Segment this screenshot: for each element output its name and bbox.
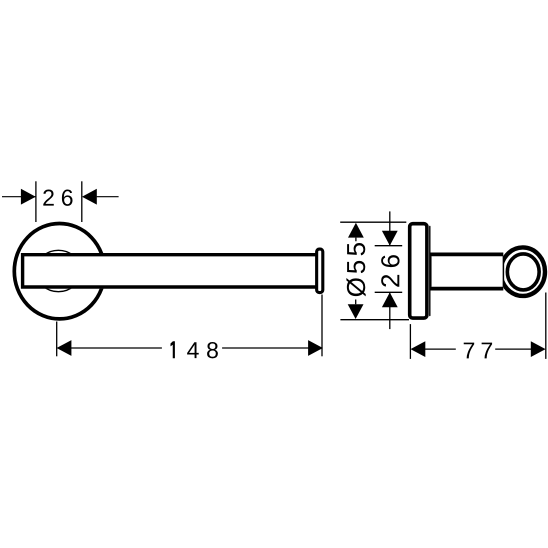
dimension 26 (side): dimension line top segment [389,211,391,245]
side view: outer ring of holder end [501,247,545,296]
dimension 77: value text [464,343,492,359]
dimension Ø55: value text (rotated) [346,243,365,296]
dimension 26 (side): top tick line [375,245,403,247]
dimension 77: right arrowhead [531,341,546,357]
dimension 77 (side, bottom): left extension line [409,324,411,359]
dimension 26 (side): dimension line bottom segment [389,292,391,329]
front view: mounting boss circle (Ø26) [36,250,81,291]
dimension 148 (front, bottom): left extension line [56,322,58,357]
dimension 26 (front): leader line right [97,196,119,198]
dimension 26 (front): value text [43,190,72,206]
dimension 148: right arrowhead [308,340,323,356]
dimension Ø55: bottom tick line [340,319,409,321]
dimension Ø55: up arrowhead [348,223,364,238]
dimension 77: dimension line segments [418,348,538,350]
dimension Ø55 (side): top tick line [340,221,406,223]
front view: roll holder bar [21,253,317,289]
dimension 148: value text [171,341,218,358]
dimension 26 (side): down arrowhead [382,231,398,246]
dimension 148: right extension line [321,295,323,357]
side view: inner ring of holder end [507,254,539,290]
dimension 26 (front): right arrowhead [82,189,97,205]
dimension 26 (front): right extension line [81,181,83,222]
front view: bar end cap [317,249,323,292]
dimension Ø55: down arrowhead [348,304,364,319]
dimension 148: dimension line segments [64,347,315,349]
dimension Ø55: dimension line connector segments [355,238,357,305]
dimension 26 (front, top): leader line left [2,196,36,198]
dimension 77: left arrowhead [411,341,426,357]
side view: plate face edge line [429,227,431,316]
dimension 77: right extension line [545,293,547,359]
side view: wall plate body [410,224,427,318]
side view: arm (bar seen from side) [430,253,503,291]
front view: wall rosette circle (Ø55) [14,224,104,319]
dimension 26 (side): value text (rotated) [381,255,399,287]
dimension 26 (front): left extension line [35,181,37,222]
dimension 148: left arrowhead [57,340,72,356]
dimension 26 (side): bottom tick line [375,291,403,293]
dimension 26 (side): up arrowhead [382,292,398,307]
dimension 26 (front): left arrowhead [21,189,36,205]
